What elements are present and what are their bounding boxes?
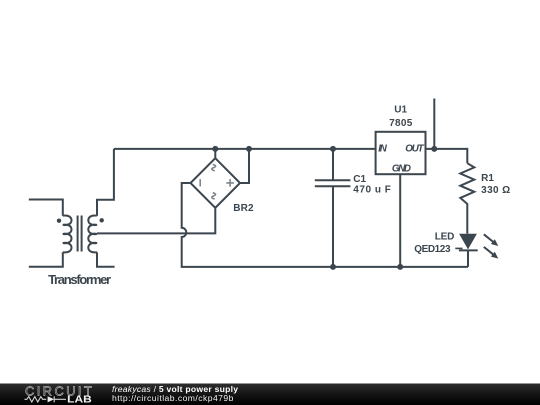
svg-text:7805: 7805: [389, 118, 413, 129]
svg-text:C1: C1: [353, 174, 366, 185]
svg-text:330 Ω: 330 Ω: [481, 185, 510, 196]
svg-text:Transformer: Transformer: [48, 272, 111, 287]
svg-text:OUT: OUT: [405, 144, 424, 155]
svg-text:IN: IN: [378, 144, 388, 155]
svg-text:LAB: LAB: [67, 394, 92, 405]
svg-text:LED: LED: [435, 232, 455, 243]
svg-text:U1: U1: [394, 104, 407, 115]
svg-text:470 u F: 470 u F: [353, 185, 391, 196]
svg-text:http://circuitlab.com/ckp479b: http://circuitlab.com/ckp479b: [112, 393, 234, 403]
svg-text:GND: GND: [392, 164, 411, 175]
svg-text:QED123: QED123: [414, 244, 451, 255]
svg-text:R1: R1: [481, 173, 494, 184]
svg-text:BR2: BR2: [233, 203, 254, 214]
